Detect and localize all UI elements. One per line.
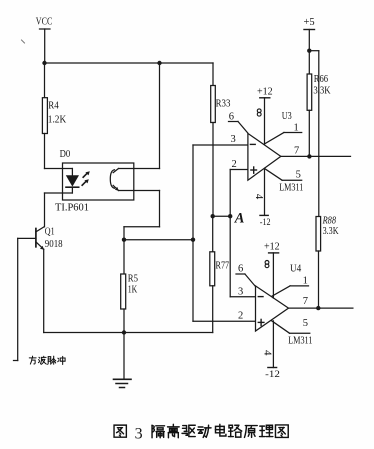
svg-text:+12: +12: [257, 87, 273, 98]
op-amp U3: [248, 133, 281, 180]
U4 pin 4 label rotated: [261, 350, 273, 356]
svg-text:9018: 9018: [45, 238, 63, 250]
svg-text:7: 7: [294, 146, 299, 157]
node U4 output: [316, 306, 320, 310]
wire R33 top lead: [212, 63, 214, 86]
svg-text:VCC: VCC: [36, 15, 53, 27]
+5 supply: [304, 17, 315, 74]
svg-text:-12: -12: [260, 218, 271, 228]
wire R66 bottom lead: [308, 110, 310, 156]
svg-text:6: 6: [229, 112, 234, 123]
transistor Q1: [36, 225, 63, 250]
wire R88 branch: [309, 51, 319, 217]
wire LED cathode: [45, 193, 73, 227]
node R5 top: [122, 238, 126, 242]
svg-text:4: 4: [253, 194, 265, 200]
U3 pin 5: [264, 168, 301, 180]
node A label: [234, 210, 245, 226]
U4 -12 supply: [265, 321, 280, 380]
resistor R77: [210, 252, 230, 286]
svg-text:U3: U3: [282, 111, 292, 122]
svg-text:+12: +12: [264, 242, 280, 253]
node feedback riser: [191, 238, 195, 242]
U3 pin 1: [265, 123, 302, 144]
svg-text:Q1: Q1: [45, 225, 55, 237]
svg-text:3.3K: 3.3K: [323, 225, 339, 237]
svg-text:R4: R4: [48, 100, 59, 112]
svg-text:1: 1: [294, 123, 299, 134]
svg-text:2: 2: [232, 159, 237, 170]
svg-text:U4: U4: [290, 263, 302, 274]
phototransistor: [110, 169, 119, 191]
label TI.P601: [55, 201, 89, 213]
wire LED anode: [45, 168, 73, 170]
svg-text:1K: 1K: [128, 284, 138, 296]
wire top rail: [45, 62, 214, 64]
U4 infinity: [265, 261, 269, 268]
wire R88 bottom lead: [318, 251, 320, 308]
label square wave pulse: [29, 356, 65, 364]
U4 pin 1: [272, 276, 309, 297]
resistor R66: [307, 73, 331, 110]
svg-text:7: 7: [303, 296, 308, 307]
U3 label: [282, 111, 292, 122]
wire Q1 base: [14, 238, 36, 360]
U3 pin 3 label: [231, 134, 236, 145]
node A left: [211, 214, 215, 218]
label D0: [60, 148, 71, 160]
node A right: [228, 214, 232, 218]
svg-text:3: 3: [238, 287, 243, 298]
wire R77 top lead: [212, 216, 214, 252]
wire collector riser: [159, 63, 161, 169]
U4 pin 2 label: [238, 310, 243, 321]
svg-text:-12: -12: [265, 370, 280, 380]
node +5 branch: [307, 49, 311, 53]
svg-text:4: 4: [261, 350, 273, 356]
wire U3 pin2 to A to U4 pin3: [230, 170, 255, 297]
U4 LM311 label: [288, 335, 312, 346]
svg-text:5: 5: [303, 318, 308, 329]
wire R4 top lead: [44, 63, 46, 98]
U4 pin 6: [236, 264, 255, 286]
svg-text:2: 2: [238, 310, 243, 321]
wire R5 bottom lead: [123, 309, 125, 333]
ground: [114, 333, 132, 388]
node VCC rail junction: [42, 61, 46, 65]
svg-text:R77: R77: [216, 260, 230, 272]
svg-text:5: 5: [296, 170, 301, 181]
svg-text:3: 3: [135, 425, 143, 442]
U4 +12 supply: [264, 242, 280, 299]
light arrows: [82, 171, 90, 185]
U3 -12 supply: [260, 168, 271, 227]
node ground junction: [122, 330, 126, 334]
svg-text:+5: +5: [304, 17, 315, 28]
wire phototransistor emitter: [119, 191, 160, 240]
caption: [114, 424, 288, 442]
U3 LM311 label: [279, 183, 303, 194]
wire VCC down: [44, 29, 46, 63]
wire ground rail: [44, 332, 213, 334]
U3 pin 4 label rotated: [253, 194, 265, 200]
wire R5 top lead: [123, 240, 125, 274]
node U3 output: [307, 154, 311, 158]
svg-text:LM311: LM311: [279, 183, 303, 194]
resistor R5: [121, 273, 139, 310]
VCC label: [36, 15, 53, 27]
svg-text:TI.P601: TI.P601: [55, 201, 89, 213]
svg-text:3: 3: [231, 134, 236, 145]
svg-text:LM311: LM311: [288, 335, 312, 346]
wire R77 bottom lead: [212, 286, 214, 333]
resistor R33: [211, 86, 231, 123]
optocoupler D0 box: [63, 163, 134, 200]
op-amp U4: [256, 286, 289, 331]
LED diode: [66, 169, 79, 194]
U4 label: [290, 263, 302, 274]
svg-text:1: 1: [303, 276, 308, 287]
svg-text:6: 6: [238, 264, 243, 275]
wire U4 pin2 input: [193, 240, 256, 322]
U3 infinity: [257, 109, 261, 116]
node collector riser junction: [157, 61, 161, 65]
svg-text:A: A: [234, 210, 245, 226]
svg-text:3.3K: 3.3K: [313, 85, 330, 97]
wire Q1 emitter down: [43, 249, 45, 332]
U3 pin 7 output: [281, 146, 351, 157]
svg-text:D0: D0: [60, 148, 71, 160]
svg-text:R66: R66: [314, 73, 329, 85]
wire R4 bottom lead: [44, 134, 46, 169]
U3 +12 supply: [257, 87, 273, 144]
wire R33 bottom lead: [212, 123, 214, 217]
svg-text:R33: R33: [216, 97, 231, 109]
U3 pin 6: [229, 112, 248, 133]
wire node row: [124, 239, 193, 241]
svg-text:1.2K: 1.2K: [48, 114, 66, 126]
resistor R4: [42, 98, 66, 134]
wire U3 pin3 input: [193, 145, 248, 240]
U4 pin 5: [272, 318, 310, 333]
U4 pin 7 output: [289, 296, 353, 308]
U4 pin 3 label: [238, 287, 243, 298]
wire A row: [213, 215, 231, 217]
scan artifact tick: [22, 40, 25, 43]
U3 pin 2 label: [232, 159, 237, 170]
resistor R88: [316, 215, 339, 251]
VCC terminal: [40, 28, 51, 30]
wire phototransistor collector: [119, 168, 160, 170]
